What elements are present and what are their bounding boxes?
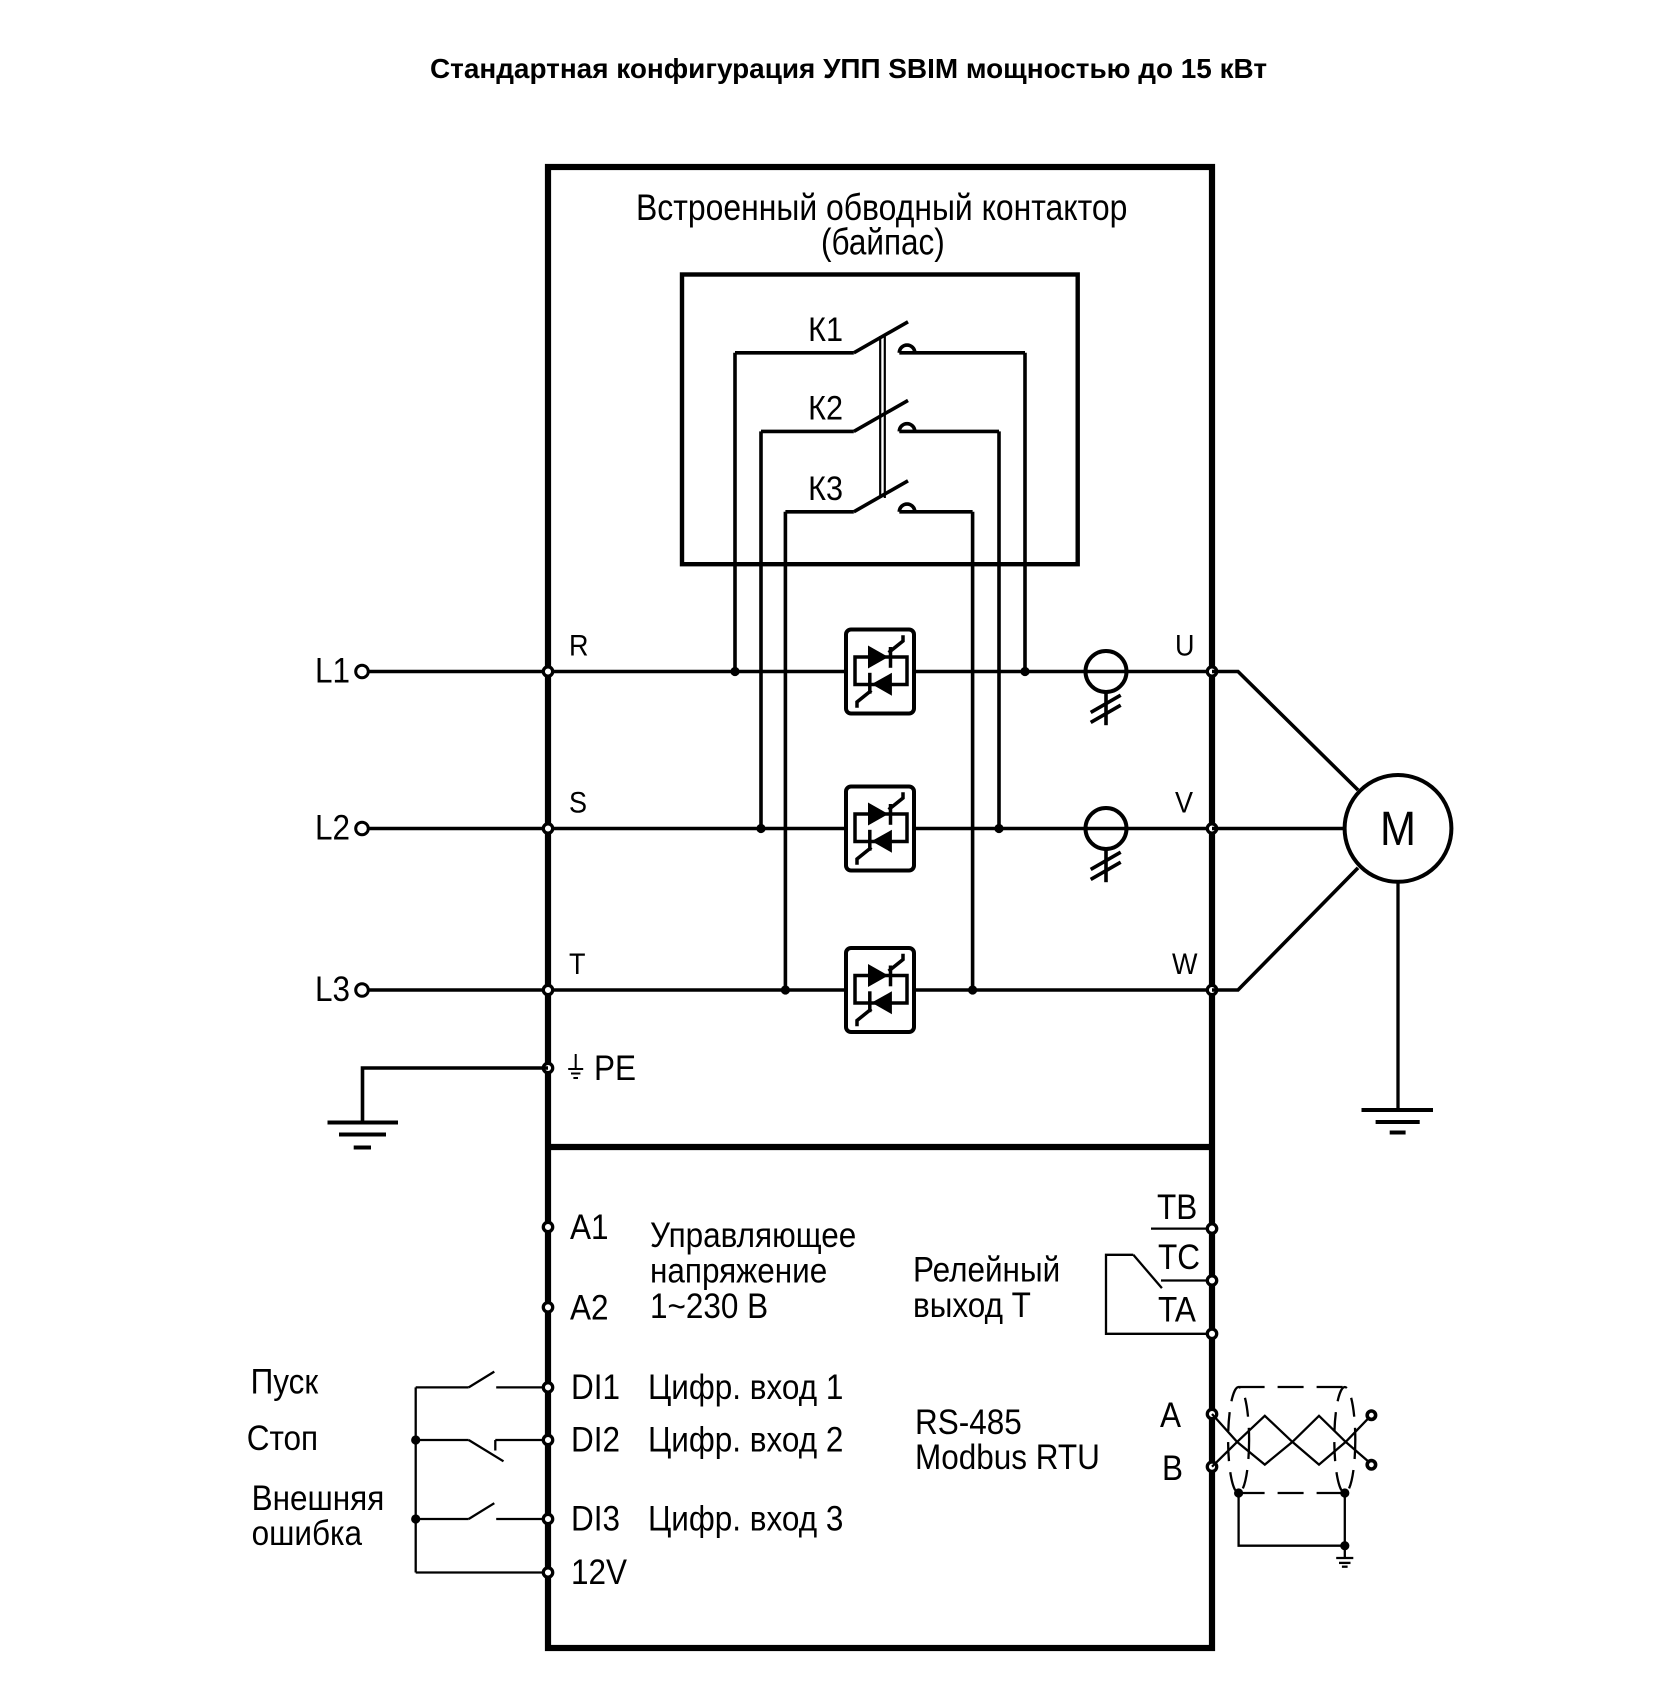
current transformer phase V — [1086, 808, 1127, 882]
cable end terminal bottom — [1367, 1461, 1375, 1469]
svg-text:TC: TC — [1158, 1239, 1200, 1278]
svg-text:Пуск: Пуск — [251, 1363, 319, 1402]
node shield drain junction — [1340, 1541, 1349, 1550]
S phase line — [548, 827, 1212, 831]
cable end terminal top — [1367, 1411, 1375, 1419]
current transformer phase U — [1086, 651, 1127, 725]
twisted pair wire A — [1212, 1414, 1368, 1465]
node K1-U junction — [1020, 667, 1029, 676]
svg-text:(байпас): (байпас) — [821, 222, 945, 263]
terminal S — [543, 824, 552, 833]
wire K2 left drop to S — [759, 431, 763, 828]
svg-text:A1: A1 — [570, 1209, 609, 1248]
node K2-V junction — [994, 824, 1003, 833]
wire U to motor — [1212, 672, 1358, 791]
svg-text:выход Т: выход Т — [913, 1287, 1031, 1326]
relay contact TB stub — [1151, 1227, 1212, 1229]
wire W to motor — [1212, 868, 1358, 990]
cable shield left cap — [1228, 1387, 1249, 1493]
terminal TC — [1207, 1276, 1216, 1285]
switch external fault (NO) — [416, 1503, 543, 1519]
svg-text:Modbus RTU: Modbus RTU — [915, 1439, 1100, 1478]
thyristor pair phase R — [846, 630, 914, 714]
svg-text:К2: К2 — [808, 389, 843, 427]
svg-text:DI1: DI1 — [571, 1369, 620, 1408]
cable shield top — [1239, 1386, 1345, 1388]
terminal DI2 — [543, 1435, 552, 1444]
terminal DI3 — [543, 1514, 552, 1523]
terminal W — [1207, 985, 1216, 994]
svg-text:напряжение: напряжение — [650, 1252, 827, 1291]
node shield left — [1234, 1488, 1243, 1497]
node Stop junction — [411, 1435, 420, 1444]
ground PE — [328, 1123, 399, 1148]
wire K1 right drop to U — [1023, 353, 1027, 672]
svg-text:V: V — [1175, 786, 1193, 820]
svg-text:М: М — [1380, 802, 1416, 856]
terminal T — [543, 985, 552, 994]
wire V to motor — [1212, 827, 1345, 831]
svg-text:L2: L2 — [315, 809, 350, 848]
svg-text:RS-485: RS-485 — [915, 1404, 1022, 1443]
contactor K3 contact — [785, 481, 972, 512]
svg-text:ошибка: ошибка — [252, 1515, 363, 1554]
wire L2 to S — [368, 827, 548, 831]
separator line between power and control sections — [545, 1144, 1215, 1150]
wire L1 to R — [368, 670, 548, 674]
node external fault junction — [411, 1514, 420, 1523]
terminal B — [1207, 1462, 1216, 1471]
terminal R — [543, 667, 552, 676]
L3 input terminal — [356, 984, 369, 997]
svg-text:К1: К1 — [808, 310, 843, 348]
L1 input terminal — [356, 665, 369, 678]
L2 input terminal — [356, 822, 369, 835]
svg-text:12V: 12V — [571, 1554, 628, 1593]
RS-485 text — [915, 1404, 1100, 1478]
svg-text:TA: TA — [1158, 1291, 1197, 1330]
svg-text:U: U — [1175, 629, 1194, 663]
wire K1 left drop to R — [733, 353, 737, 672]
relay common wire TA — [1106, 1255, 1212, 1334]
motor ground — [1362, 1110, 1434, 1133]
terminal PE — [543, 1063, 552, 1072]
wire K2 right drop to V — [997, 431, 1001, 828]
svg-text:Стоп: Стоп — [247, 1420, 318, 1459]
bypass contactor box — [682, 275, 1078, 565]
svg-text:PE: PE — [594, 1050, 636, 1089]
svg-text:Управляющее: Управляющее — [650, 1217, 856, 1256]
svg-text:DI3: DI3 — [571, 1500, 620, 1539]
main enclosure box — [548, 167, 1212, 1648]
twisted pair wire B — [1212, 1416, 1368, 1467]
svg-text:A: A — [1160, 1397, 1182, 1436]
relay contact TC stub — [1161, 1279, 1212, 1281]
terminal A — [1207, 1409, 1216, 1418]
thyristor pair phase S — [846, 787, 914, 871]
svg-text:Внешняя: Внешняя — [252, 1480, 385, 1519]
svg-text:Цифр. вход 3: Цифр. вход 3 — [648, 1500, 843, 1539]
PE earth mark — [568, 1054, 583, 1078]
terminal DI1 — [543, 1383, 552, 1392]
R phase line — [548, 670, 1212, 674]
terminal A1 — [543, 1222, 552, 1231]
wire PE to ground — [363, 1068, 549, 1121]
relay output text — [913, 1251, 1060, 1325]
contactor K2 contact — [761, 400, 999, 431]
node K3-W junction — [968, 985, 977, 994]
wire K3 right drop to W — [971, 512, 975, 990]
svg-text:Стандартная конфигурация УПП S: Стандартная конфигурация УПП SBIM мощнос… — [430, 52, 1267, 84]
svg-text:L3: L3 — [315, 970, 350, 1009]
node K3-T junction — [781, 985, 790, 994]
terminal V — [1207, 824, 1216, 833]
control voltage text — [650, 1217, 856, 1327]
shield drain wire — [1239, 1493, 1345, 1546]
terminal TB — [1207, 1224, 1216, 1233]
node shield right — [1340, 1488, 1349, 1497]
svg-text:B: B — [1162, 1450, 1183, 1489]
svg-text:Цифр. вход 1: Цифр. вход 1 — [648, 1369, 843, 1408]
svg-text:К3: К3 — [808, 469, 843, 507]
shield drain wire right — [1344, 1493, 1346, 1557]
node K2-S junction — [756, 824, 765, 833]
svg-text:W: W — [1172, 948, 1198, 982]
wire L3 to T — [368, 988, 548, 992]
svg-text:DI2: DI2 — [571, 1421, 620, 1460]
svg-text:R: R — [569, 629, 588, 663]
wire K3 left drop to T — [784, 512, 788, 990]
terminal U — [1207, 667, 1216, 676]
switch Stop (NC) — [416, 1440, 543, 1461]
contactor mechanical linkage — [880, 336, 885, 498]
svg-text:A2: A2 — [570, 1289, 609, 1328]
switch Pusk (NO) — [416, 1372, 543, 1388]
svg-text:TB: TB — [1157, 1189, 1197, 1228]
T phase line — [548, 988, 1212, 992]
motor M — [1345, 775, 1452, 882]
terminal A2 — [543, 1303, 552, 1312]
common 12V wire — [415, 1387, 417, 1572]
node K1-R junction — [730, 667, 739, 676]
wire common to 12V — [416, 1571, 543, 1573]
svg-text:Цифр. вход 2: Цифр. вход 2 — [648, 1421, 843, 1460]
wire motor to ground — [1396, 882, 1399, 1110]
ground shield — [1336, 1558, 1353, 1567]
terminal TA — [1207, 1329, 1216, 1338]
svg-text:1~230 В: 1~230 В — [650, 1288, 768, 1327]
cable shield bottom — [1239, 1492, 1345, 1494]
svg-text:L1: L1 — [315, 652, 350, 691]
relay changeover blade — [1133, 1255, 1162, 1288]
cable shield right cap — [1334, 1387, 1355, 1493]
terminal 12V — [543, 1568, 552, 1577]
svg-text:Релейный: Релейный — [913, 1251, 1060, 1290]
thyristor pair phase T — [846, 948, 914, 1032]
svg-text:S: S — [569, 786, 587, 820]
contactor K1 contact — [735, 322, 1025, 353]
svg-text:T: T — [569, 948, 585, 982]
